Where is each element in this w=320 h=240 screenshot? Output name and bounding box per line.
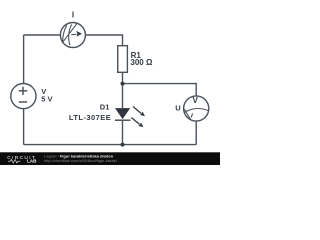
- svg-text:LAB: LAB: [27, 159, 37, 164]
- svg-text:U: U: [175, 104, 180, 113]
- svg-text:D1: D1: [100, 103, 110, 112]
- svg-text:V: V: [193, 96, 199, 105]
- svg-text:LTL-307EE: LTL-307EE: [69, 113, 111, 122]
- svg-text:I: I: [72, 11, 74, 20]
- svg-text:http://circuitlab.com/c/924kcd: http://circuitlab.com/c/924kcd/figur-kar…: [44, 158, 118, 163]
- svg-text:5 V: 5 V: [41, 95, 52, 104]
- svg-text:300 Ω: 300 Ω: [130, 58, 153, 67]
